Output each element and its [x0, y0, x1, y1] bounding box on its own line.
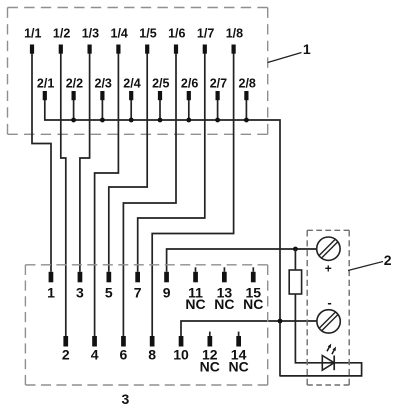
wire terminal 9 to + screw terminal: [167, 249, 318, 272]
pin 2/3 contact: [100, 91, 104, 100]
junction 2/7 on bus: [215, 118, 220, 123]
terminal 5 label: [105, 284, 113, 300]
wire 2/2 to bus: [73, 100, 75, 120]
wire 1/1 to terminal 1: [32, 54, 51, 272]
svg-text:2/2: 2/2: [66, 77, 83, 91]
terminal 14 label: [231, 346, 247, 362]
pin 2/1 contact: [43, 91, 47, 100]
wire 1/8 to terminal 8: [152, 54, 233, 337]
wire 1/3 to terminal 3: [80, 54, 90, 272]
pin 2/4 contact: [129, 91, 133, 100]
LED D1: [322, 356, 334, 371]
wire 1/4 to terminal 4: [95, 54, 119, 337]
terminal pin 14 (NC stub): [236, 332, 241, 347]
resistor R1: [289, 270, 301, 294]
terminal 4 label: [91, 346, 99, 362]
pin 1/4 contact: [116, 45, 120, 54]
svg-text:2/3: 2/3: [95, 77, 112, 91]
svg-text:NC: NC: [185, 296, 205, 312]
terminal pin 6: [121, 336, 126, 347]
junction 2/2 on bus: [71, 118, 76, 123]
svg-text:2: 2: [62, 346, 70, 362]
pin 1/6 contact: [174, 45, 178, 54]
svg-text:8: 8: [148, 346, 156, 362]
svg-text:NC: NC: [200, 359, 220, 375]
svg-text:4: 4: [91, 346, 99, 362]
junction 2/4 on bus: [129, 118, 134, 123]
terminal pin 9: [164, 272, 169, 283]
wire 1/6 to terminal 6: [123, 54, 176, 337]
wire 2/8 to bus: [245, 100, 247, 120]
terminal 6 label: [120, 346, 128, 362]
svg-text:NC: NC: [243, 296, 263, 312]
svg-text:+: +: [325, 262, 332, 276]
wire 2/6 to bus: [188, 100, 190, 120]
pin 2/2 contact: [72, 91, 76, 100]
terminal 13 NC marking: [214, 296, 234, 312]
pin 1/3 contact: [88, 45, 92, 54]
terminal 2 label: [62, 346, 70, 362]
svg-text:2/8: 2/8: [239, 77, 256, 91]
wire LED cathode return loop: [280, 363, 362, 376]
screw terminal - (minus): [317, 310, 340, 333]
wire 2/4 to bus: [130, 100, 132, 120]
wire 1/7 to terminal 7: [138, 54, 205, 272]
terminal 14 NC marking: [228, 359, 248, 375]
wire 2/3 to bus: [101, 100, 103, 120]
junction + wire to resistor: [293, 247, 298, 252]
wire 2/7 to bus: [217, 100, 219, 120]
terminal pin 2: [63, 336, 68, 347]
svg-text:1/7: 1/7: [197, 27, 214, 41]
terminal pin 7: [135, 272, 140, 283]
label 3: [122, 391, 130, 407]
terminal pin 10: [179, 336, 184, 347]
power indicator module 2 (dashed outline): [307, 230, 349, 385]
terminal pin 8: [150, 336, 155, 347]
svg-text:-: -: [327, 295, 331, 310]
wire 2/5 to bus: [159, 100, 161, 120]
svg-text:2/4: 2/4: [123, 77, 140, 91]
svg-text:1/3: 1/3: [82, 27, 99, 41]
svg-text:2/6: 2/6: [181, 77, 198, 91]
pin 2/8 label: [239, 77, 256, 91]
pin 2/6 contact: [187, 91, 191, 100]
pin 2/7 label: [210, 77, 227, 91]
wire resistor R1 to LED anode: [295, 294, 322, 363]
pin 1/7 contact: [203, 45, 207, 54]
pin 1/4 label: [111, 27, 128, 41]
junction - wire to LED return and 2/x bus: [278, 319, 283, 324]
pin 2/5 contact: [158, 91, 162, 100]
pin 1/2 label: [53, 27, 70, 41]
pin 2/2 label: [66, 77, 83, 91]
svg-text:1/2: 1/2: [53, 27, 70, 41]
terminal pin 4: [92, 336, 97, 347]
wire 2/1 to common bus and bus rail to vertical drop: [45, 100, 280, 377]
terminal 12 NC marking: [200, 359, 220, 375]
svg-text:5: 5: [105, 284, 113, 300]
terminal 10 label: [173, 346, 189, 362]
junction 2/8 on bus: [244, 118, 249, 123]
terminal 1 label: [47, 284, 55, 300]
svg-text:1/4: 1/4: [111, 27, 128, 41]
svg-text:1/1: 1/1: [24, 27, 41, 41]
svg-text:NC: NC: [214, 296, 234, 312]
terminal pin 11 (NC stub): [193, 267, 198, 282]
wire 1/2 to terminal 2: [61, 54, 66, 337]
label - for minus terminal: [327, 295, 331, 310]
pin 1/3 label: [82, 27, 99, 41]
terminal pin 12 (NC stub): [208, 332, 213, 347]
svg-text:7: 7: [134, 284, 142, 300]
svg-text:1/8: 1/8: [226, 27, 243, 41]
terminal pin 15 (NC stub): [251, 267, 256, 282]
label 2 with leader line: [348, 252, 392, 270]
label 1 with leader line: [268, 41, 311, 63]
svg-text:1/5: 1/5: [139, 27, 156, 41]
svg-text:1: 1: [47, 284, 55, 300]
terminal pin 5: [107, 272, 112, 283]
label + for plus terminal: [325, 262, 332, 276]
pin 2/6 label: [181, 77, 198, 91]
terminal 13 label: [217, 284, 233, 300]
svg-text:6: 6: [120, 346, 128, 362]
base terminal block 3 (dashed outline): [25, 265, 267, 385]
wire + junction to resistor R1: [294, 249, 296, 270]
pin 2/3 label: [95, 77, 112, 91]
terminal pin 3: [78, 272, 83, 283]
terminal 15 NC marking: [243, 296, 263, 312]
terminal 15 label: [246, 284, 262, 300]
junction 2/6 on bus: [186, 118, 191, 123]
pin 2/8 contact: [244, 91, 248, 100]
svg-text:2: 2: [384, 252, 392, 268]
terminal 3 label: [76, 284, 84, 300]
junction 2/5 on bus: [158, 118, 163, 123]
terminal 9 label: [163, 284, 171, 300]
connector housing 1 (16-pos connector, dashed outline): [8, 8, 268, 135]
svg-text:3: 3: [76, 284, 84, 300]
pin 1/6 label: [168, 27, 185, 41]
junction 2/3 on bus: [100, 118, 105, 123]
svg-text:3: 3: [122, 391, 130, 407]
pin 1/5 label: [139, 27, 156, 41]
LED emission arrows: [327, 344, 336, 355]
svg-text:2/5: 2/5: [152, 77, 169, 91]
pin 1/8 contact: [232, 45, 236, 54]
svg-text:10: 10: [173, 346, 189, 362]
svg-text:9: 9: [163, 284, 171, 300]
screw terminal + (plus): [317, 237, 340, 260]
terminal 11 label: [188, 284, 203, 300]
wire 1/5 to terminal 5: [109, 54, 147, 272]
pin 2/4 label: [123, 77, 140, 91]
svg-text:NC: NC: [228, 359, 248, 375]
terminal 11 NC marking: [185, 296, 205, 312]
terminal pin 1: [49, 272, 54, 283]
svg-text:1/6: 1/6: [168, 27, 185, 41]
wire terminal 10 to - screw terminal: [181, 321, 318, 336]
pin 1/5 contact: [145, 45, 149, 54]
terminal 8 label: [148, 346, 156, 362]
pin 2/1 label: [37, 77, 54, 91]
pin 1/1 label: [24, 27, 41, 41]
terminal 12 label: [202, 346, 218, 362]
pin 1/7 label: [197, 27, 214, 41]
terminal 7 label: [134, 284, 142, 300]
svg-text:2/7: 2/7: [210, 77, 227, 91]
svg-text:1: 1: [303, 41, 311, 57]
pin 1/1 contact: [30, 45, 34, 54]
pin 1/8 label: [226, 27, 243, 41]
terminal pin 13 (NC stub): [222, 267, 227, 282]
pin 1/2 contact: [59, 45, 63, 54]
svg-text:2/1: 2/1: [37, 77, 54, 91]
pin 2/5 label: [152, 77, 169, 91]
pin 2/7 contact: [216, 91, 220, 100]
